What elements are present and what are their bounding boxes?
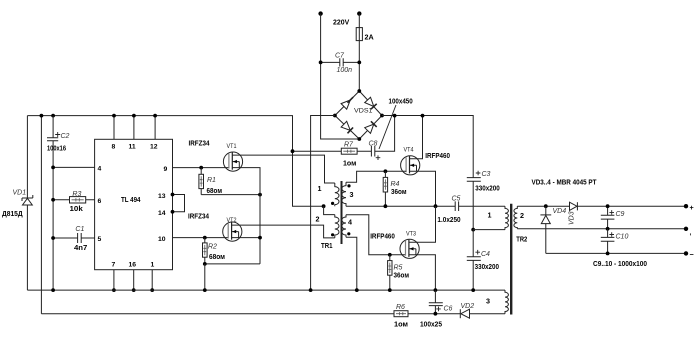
capacitor C10 xyxy=(601,229,629,254)
svg-text:C10: C10 xyxy=(616,234,629,241)
node R7 left junction xyxy=(291,149,295,153)
resistor R4 36ом xyxy=(383,171,406,206)
svg-text:C4: C4 xyxy=(481,251,490,258)
svg-text:1ом: 1ом xyxy=(343,159,356,168)
svg-text:R7: R7 xyxy=(344,142,354,149)
node bridge bottom corner xyxy=(357,137,361,141)
fuse FU 2A xyxy=(356,28,374,42)
transformer TR2 winding 2 xyxy=(514,206,524,229)
transformer TR1 winding 3 xyxy=(342,182,354,206)
pin 16 xyxy=(129,262,137,293)
svg-text:4: 4 xyxy=(98,166,102,173)
svg-text:R2: R2 xyxy=(208,244,217,251)
pin 8 xyxy=(112,114,116,151)
node pin4 junction x53 xyxy=(51,166,55,170)
svg-text:VD1: VD1 xyxy=(13,190,27,197)
wire VT2 source to vertical xyxy=(232,237,260,239)
svg-text:1: 1 xyxy=(318,184,322,193)
pin 9 number xyxy=(164,166,168,173)
resistor R6 1ом xyxy=(394,304,408,328)
svg-text:TL 494: TL 494 xyxy=(121,195,141,204)
node ground bridge minus junction xyxy=(309,288,313,292)
svg-text:1: 1 xyxy=(488,211,492,220)
capacitor C2 100x16 xyxy=(47,116,70,291)
svg-text:−: − xyxy=(690,250,694,259)
transformer TR2 core xyxy=(510,204,512,315)
transistor VT1 IRFZ34 xyxy=(189,138,243,171)
svg-text:Д815Д: Д815Д xyxy=(2,209,23,218)
svg-text:C6: C6 xyxy=(444,306,453,313)
node VD4 top junction xyxy=(544,204,548,208)
svg-text:10k: 10k xyxy=(70,204,83,213)
wire TR1 winding4 top to VT3 gate xyxy=(346,215,406,255)
wire R1 bottom to source vertical xyxy=(201,194,260,196)
svg-text:36ом: 36ом xyxy=(391,187,407,196)
pin 13 and 14 bracket xyxy=(158,193,185,218)
capacitor C6 100x25 xyxy=(420,290,453,328)
svg-text:C7: C7 xyxy=(335,53,345,60)
node R5 top junction xyxy=(388,253,392,257)
diode bridge VDS1 frame xyxy=(335,91,382,139)
svg-text:+: + xyxy=(690,203,694,212)
label 100x450 callout xyxy=(379,96,413,149)
svg-text:TR1: TR1 xyxy=(321,241,333,250)
svg-text:220V: 220V xyxy=(333,18,349,27)
wire pin 9 to VT1 gate xyxy=(173,167,230,169)
wire bridge plus output to C3 xyxy=(382,116,473,178)
pin 7 xyxy=(112,262,116,293)
label TR1 xyxy=(321,241,333,250)
node C9 top junction xyxy=(606,204,610,208)
node C6 bottom junction xyxy=(434,312,438,316)
wire bridge minus output down to ground xyxy=(311,116,335,291)
label TR2 xyxy=(516,234,527,243)
resistor R7 1ом xyxy=(341,142,357,168)
node R2 top junction xyxy=(203,236,207,240)
wire pin 10 to VT2 gate xyxy=(173,237,229,239)
wire 220V left line down to bridge bottom corner xyxy=(321,14,360,139)
op-amp U1 TL494 PWM controller xyxy=(95,139,173,269)
node bridge left corner xyxy=(333,114,337,118)
svg-text:VD3..4 - MBR 4045 PT: VD3..4 - MBR 4045 PT xyxy=(532,177,598,186)
svg-text:1: 1 xyxy=(151,262,155,269)
wire secondary middle line xyxy=(517,228,686,230)
node 220V right terminal xyxy=(357,11,361,15)
svg-text:VT2: VT2 xyxy=(227,217,237,224)
svg-text:C9: C9 xyxy=(616,211,625,218)
svg-text:9: 9 xyxy=(164,166,168,173)
wire R2 bottom down to ground xyxy=(204,264,206,290)
capacitor C1 4n7 xyxy=(53,226,95,252)
svg-text:IRFP460: IRFP460 xyxy=(370,231,395,240)
svg-text:330x200: 330x200 xyxy=(475,262,499,271)
pin 4 number xyxy=(98,166,102,173)
wire VT4 drain up to plus rail xyxy=(410,116,423,159)
node output middle terminal xyxy=(684,227,692,237)
transistor VT4 IRFP460 xyxy=(401,147,450,175)
diode VDS1 top-right xyxy=(365,97,377,109)
pin 11 xyxy=(129,114,136,151)
svg-text:VD3: VD3 xyxy=(569,211,576,225)
diode VDS1 bottom-right xyxy=(365,121,377,133)
resistor R3 10k xyxy=(53,191,95,213)
svg-text:13: 13 xyxy=(158,193,166,200)
node ground VT3 source C6 junction xyxy=(434,288,438,292)
svg-text:VT4: VT4 xyxy=(404,147,414,154)
node R2 bottom junction xyxy=(203,262,207,266)
node VT4 drain rail junction xyxy=(421,114,425,118)
node rail x41 junction xyxy=(40,114,44,118)
label C9..10 value xyxy=(593,259,647,268)
diode VD2 xyxy=(460,303,474,318)
resistor R5 36ом xyxy=(388,255,409,290)
pin 10 number xyxy=(158,236,166,243)
node TR1 winding2 phasing dot xyxy=(331,233,334,236)
capacitor C3 330x200 xyxy=(467,171,500,230)
svg-text:C9..10 - 1000x100: C9..10 - 1000x100 xyxy=(593,259,647,268)
svg-text:C2: C2 xyxy=(61,133,70,140)
svg-text:TR2: TR2 xyxy=(516,234,527,243)
svg-text:C1: C1 xyxy=(75,226,84,233)
label VD3..4 MBR 4045 PT xyxy=(532,177,598,186)
transistor VT3 IRFP460 xyxy=(370,230,419,258)
transformer TR1 winding 2 xyxy=(316,215,340,238)
pin 5 number xyxy=(98,236,102,243)
svg-text:4: 4 xyxy=(348,218,352,227)
capacitor C4 330x200 xyxy=(467,230,499,291)
node C1 left junction x53 xyxy=(51,236,55,240)
node C8 plus rail junction xyxy=(393,114,397,118)
svg-text:C5: C5 xyxy=(452,196,461,203)
node VT2 source junction xyxy=(258,236,262,240)
ground rail xyxy=(27,289,505,291)
svg-text:3: 3 xyxy=(486,296,490,305)
wire bottom feedback line xyxy=(41,313,505,315)
transformer TR2 winding 1 xyxy=(488,206,509,229)
node R1 top junction xyxy=(199,166,203,170)
svg-text:,: , xyxy=(690,230,692,237)
node output plus terminal xyxy=(684,203,694,212)
capacitor C5 1.0x250 xyxy=(437,196,505,225)
wire TR2 winding1 bottom line xyxy=(473,229,505,231)
svg-text:VT3: VT3 xyxy=(406,230,416,237)
node ground TR1 winding4 junction xyxy=(355,288,359,292)
wire VT3 drain up to midpoint xyxy=(409,206,436,242)
svg-text:10: 10 xyxy=(158,236,166,243)
node rail x53 junction xyxy=(51,114,55,118)
node ground R2 junction xyxy=(203,288,207,292)
svg-text:7: 7 xyxy=(112,262,116,269)
zener diode VD1 Д815Д xyxy=(2,116,33,291)
svg-text:C8: C8 xyxy=(369,141,378,148)
svg-text:1ом: 1ом xyxy=(394,319,408,328)
node TR1 winding4 phasing dot xyxy=(347,232,350,235)
pin 1 xyxy=(150,262,154,293)
transformer TR1 winding 1 xyxy=(318,183,340,206)
node ground C4 junction xyxy=(471,288,475,292)
transformer TR2 winding 3 xyxy=(486,290,508,314)
svg-text:IRFP460: IRFP460 xyxy=(425,151,450,160)
node ground R5 junction xyxy=(388,288,392,292)
svg-text:1.0x250: 1.0x250 xyxy=(437,215,460,224)
svg-text:6: 6 xyxy=(98,198,102,205)
node output minus terminal xyxy=(684,250,694,259)
wire secondary top line xyxy=(517,205,686,207)
svg-text:R3: R3 xyxy=(72,191,81,198)
svg-text:3: 3 xyxy=(350,190,354,199)
diode VD4 xyxy=(540,206,566,253)
node C3 C4 midpoint junction xyxy=(471,228,475,232)
svg-text:2: 2 xyxy=(316,215,320,224)
node C10 bottom junction xyxy=(606,252,610,256)
pin 12 xyxy=(150,114,158,151)
svg-text:12: 12 xyxy=(150,144,158,151)
wire pin4 line xyxy=(53,166,95,168)
wire TR1 winding3 top to VT4 gate xyxy=(346,171,406,182)
svg-text:IRFZ34: IRFZ34 xyxy=(188,212,209,221)
transistor VT2 IRFZ34 xyxy=(188,212,242,242)
node bridge right corner xyxy=(380,114,384,118)
resistor R1 68ом xyxy=(199,168,222,195)
pin 6 number xyxy=(98,198,102,205)
svg-text:VDS1: VDS1 xyxy=(354,108,373,115)
wire TR1 winding4 bottom to ground xyxy=(346,237,357,290)
svg-text:68ом: 68ом xyxy=(209,252,225,261)
svg-text:4n7: 4n7 xyxy=(74,243,87,252)
node half-bridge midpoint junction xyxy=(434,204,438,208)
svg-text:330x200: 330x200 xyxy=(475,184,499,193)
svg-text:100n: 100n xyxy=(337,67,353,74)
svg-text:36ом: 36ом xyxy=(394,271,410,280)
node R3 left junction x53 xyxy=(51,198,55,202)
wire left feedback vertical x41 xyxy=(40,116,42,314)
svg-text:VD2: VD2 xyxy=(461,303,475,310)
wire VT2 drain to TR1 winding2 bottom xyxy=(232,225,335,238)
svg-text:8: 8 xyxy=(112,144,116,151)
node C9 C10 middle junction xyxy=(606,227,610,231)
node TR1 center tap junction xyxy=(322,204,326,208)
svg-text:VD4: VD4 xyxy=(553,208,567,215)
svg-text:2: 2 xyxy=(520,211,524,220)
wire VT1 drain to TR1 winding1 top xyxy=(232,155,334,183)
resistor R2 68ом xyxy=(203,238,226,264)
wire VT4 source down to midpoint xyxy=(410,171,436,206)
svg-text:IRFZ34: IRFZ34 xyxy=(189,138,210,147)
svg-text:100x450: 100x450 xyxy=(389,96,413,105)
wire VT3 source down to ground xyxy=(409,255,436,290)
svg-text:16: 16 xyxy=(129,262,137,269)
capacitor C7 100n xyxy=(321,53,360,75)
node bridge top corner xyxy=(357,89,361,93)
wire R2 bottom corner to source vertical xyxy=(205,263,260,265)
wire VT1 source / common source vertical xyxy=(232,168,260,264)
transformer TR1 core xyxy=(341,181,343,244)
svg-text:R1: R1 xyxy=(207,177,216,184)
transformer TR1 winding 4 xyxy=(342,215,352,237)
diode VDS1 bottom-left xyxy=(341,121,353,133)
diode VD3 xyxy=(569,202,578,225)
node 220V left terminal xyxy=(318,11,349,26)
node TR1 winding1 phasing dot xyxy=(331,202,334,205)
svg-text:5: 5 xyxy=(98,236,102,243)
node R1 bottom right junction xyxy=(258,193,262,197)
svg-text:100x25: 100x25 xyxy=(420,320,442,329)
capacitor C8 100x450 xyxy=(357,116,395,160)
node R4 top junction xyxy=(384,169,388,173)
svg-text:C3: C3 xyxy=(482,171,491,178)
wire TR1 center tap to winding 2 top xyxy=(324,206,335,214)
wire main top rail with corner down to TR1 center tap xyxy=(27,116,323,207)
svg-text:11: 11 xyxy=(129,144,136,151)
svg-text:100x16: 100x16 xyxy=(47,144,66,153)
svg-text:2A: 2A xyxy=(365,33,374,42)
wire secondary bottom line xyxy=(546,252,686,254)
wire R7 line from rail vertical xyxy=(293,150,342,152)
wire center line TR1 windings 3-4 tap to C5 xyxy=(346,205,455,207)
wire 220V right line down to bridge top corner xyxy=(358,14,360,91)
capacitor C9 xyxy=(601,206,625,229)
node C7 right junction xyxy=(357,61,361,65)
svg-text:R6: R6 xyxy=(396,304,405,311)
svg-text:68ом: 68ом xyxy=(207,186,223,195)
svg-text:14: 14 xyxy=(158,210,166,217)
svg-text:VT1: VT1 xyxy=(227,143,237,150)
node C7 left junction xyxy=(319,61,323,65)
node R4 bottom junction xyxy=(384,204,388,208)
node TR1 winding3 phasing dot xyxy=(347,184,350,187)
node ground x53 junction xyxy=(51,288,55,292)
diode VDS1 top-left xyxy=(341,97,353,109)
